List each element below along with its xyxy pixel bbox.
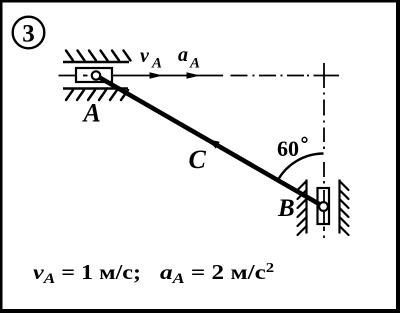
left guide wall at B [305, 180, 307, 234]
horizontal centerline dash-dot to the right [231, 75, 340, 77]
slider block B [318, 188, 330, 224]
vertical centerline dash-dot at B [323, 63, 325, 184]
svg-text:60: 60 [277, 136, 299, 161]
pin at B [319, 202, 328, 211]
60 degree arc [278, 154, 324, 181]
right guide wall at B [338, 180, 340, 234]
arrowhead aA [187, 72, 201, 79]
left guide wall hatching [298, 181, 307, 235]
right guide wall hatching [340, 181, 349, 235]
pin at A [92, 71, 100, 79]
rod AB [96, 76, 324, 207]
svg-text:C: C [189, 145, 207, 174]
svg-text:A: A [82, 99, 101, 128]
svg-text:a: a [178, 44, 188, 66]
lower wall hatching at A [66, 90, 128, 100]
svg-text:v: v [140, 45, 150, 67]
arrow at C on rod [208, 139, 220, 148]
horizontal axis solid segment with vectors [112, 75, 223, 77]
svg-text:3: 3 [22, 21, 35, 48]
arrowhead vA [150, 72, 164, 79]
centerline dash left of slider A [59, 75, 77, 77]
svg-text:B: B [277, 195, 295, 222]
centerline dashes through block B and below [323, 190, 325, 238]
upper wall line at A [63, 61, 129, 64]
svg-text:A: A [151, 56, 162, 72]
lower wall line at A [63, 87, 128, 90]
svg-text:A: A [189, 56, 200, 72]
centerline dot inside block A [83, 75, 88, 77]
problem number circle 3 [13, 17, 45, 49]
slider block A [76, 68, 112, 82]
upper wall hatching at A [66, 51, 131, 61]
